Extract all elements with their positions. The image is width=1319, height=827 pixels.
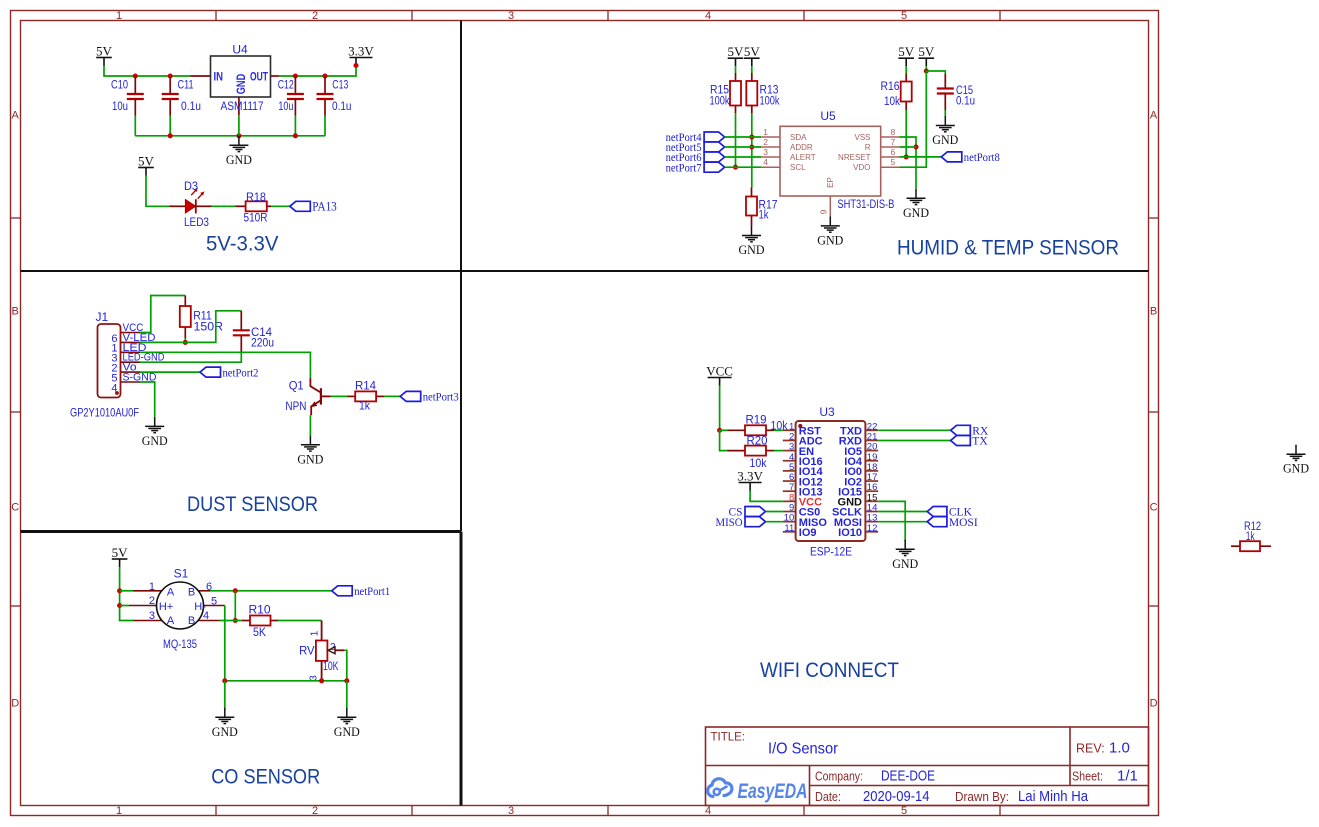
wire wiper to ground rail	[344, 650, 346, 681]
svg-text:220u: 220u	[251, 336, 274, 350]
wire netPort4 to SDA	[725, 136, 761, 138]
svg-text:10K: 10K	[323, 659, 339, 673]
capacitor C10	[111, 77, 144, 116]
svg-text:C: C	[11, 502, 19, 514]
transistor Q1 NPN	[285, 378, 330, 415]
power flag 5V (LED branch)	[138, 153, 155, 175]
svg-text:8: 8	[891, 127, 896, 137]
svg-text:SHT31-DIS-B: SHT31-DIS-B	[837, 197, 894, 211]
power flag 5V (VDO)	[918, 44, 935, 66]
svg-text:netPort7: netPort7	[666, 162, 702, 174]
wire pin4 to R10	[220, 620, 243, 622]
junction dot SCL	[733, 165, 738, 170]
junction dot pin4	[233, 618, 238, 623]
net port RX	[951, 425, 989, 437]
svg-text:1: 1	[309, 630, 320, 636]
wire R16 to NRESET	[905, 110, 907, 157]
net port CLK	[927, 507, 972, 519]
svg-text:GND: GND	[1283, 461, 1309, 476]
wire Q1 base to R14	[331, 395, 347, 397]
wire netPort6 to ALERT	[725, 156, 761, 158]
wire pin1 branch	[120, 590, 133, 592]
svg-text:10u: 10u	[112, 99, 128, 113]
svg-text:B: B	[1150, 306, 1157, 318]
svg-text:5K: 5K	[253, 625, 266, 639]
svg-text:1.0: 1.0	[1109, 740, 1130, 757]
wire VCC down	[719, 386, 721, 431]
wire MISO to MISO pin	[766, 521, 783, 523]
capacitor C15 0.1u	[937, 74, 975, 110]
svg-text:5V: 5V	[96, 43, 113, 58]
svg-text:netPort2: netPort2	[223, 367, 259, 379]
svg-text:Lai Minh Ha: Lai Minh Ha	[1018, 788, 1089, 805]
power flag 5V (regulator input)	[96, 43, 113, 65]
svg-text:3.3V: 3.3V	[348, 43, 374, 58]
svg-text:6: 6	[891, 147, 896, 157]
resistor R18	[235, 190, 271, 225]
svg-text:2: 2	[149, 595, 155, 607]
svg-text:3: 3	[308, 675, 319, 681]
svg-text:MISO: MISO	[716, 517, 743, 529]
svg-text:C13: C13	[332, 78, 348, 92]
svg-text:5: 5	[901, 805, 907, 817]
wire VCC to R11	[140, 296, 185, 333]
svg-text:Q1: Q1	[289, 379, 304, 393]
wire MOSI pin to MOSI	[878, 521, 927, 523]
wire R20 to EN	[774, 450, 783, 452]
wire ground rail	[135, 116, 325, 136]
resistor R20 10k	[728, 434, 775, 471]
resistor R19 10k	[728, 413, 788, 436]
svg-text:GND: GND	[212, 724, 238, 739]
wire VDO to 5V	[900, 71, 927, 167]
svg-text:netPort1: netPort1	[354, 586, 390, 598]
wire 5V to C15	[926, 71, 945, 74]
svg-text:IO9: IO9	[799, 527, 817, 539]
svg-text:5V: 5V	[744, 44, 761, 59]
wire 3.3V to VCC pin	[750, 491, 783, 502]
svg-text:ADDR: ADDR	[790, 143, 813, 152]
svg-text:ALERT: ALERT	[790, 153, 816, 162]
resistor R13 100k	[746, 73, 779, 113]
resistor R12 1k (floating)	[1231, 519, 1271, 551]
svg-text:D: D	[1150, 698, 1158, 710]
svg-text:2: 2	[763, 137, 768, 147]
svg-text:R19: R19	[746, 413, 767, 427]
wire TXD to RX	[878, 429, 950, 431]
wire C10 to ground rail	[134, 116, 136, 136]
resistor R11 150R	[180, 296, 224, 339]
svg-text:2020-09-14: 2020-09-14	[863, 788, 930, 805]
svg-text:TITLE:: TITLE:	[711, 732, 746, 744]
svg-text:REV:: REV:	[1076, 742, 1105, 756]
svg-text:0.1u: 0.1u	[332, 99, 352, 113]
wire pin6 to netPort1	[210, 590, 332, 592]
svg-text:H+: H+	[159, 601, 173, 613]
svg-text:ASM1117: ASM1117	[221, 99, 264, 113]
wire netPort7 to SCL	[725, 166, 761, 168]
svg-text:C10: C10	[111, 78, 128, 92]
ground GND (CO right)	[334, 708, 360, 739]
svg-text:GND: GND	[297, 451, 323, 466]
wire VCC to R19	[720, 429, 728, 431]
svg-text:1k: 1k	[1246, 531, 1255, 543]
svg-text:R20: R20	[747, 434, 768, 448]
ground GND (U5 pad)	[817, 216, 843, 247]
svg-text:5V: 5V	[138, 153, 155, 168]
wire 5V to R13	[751, 66, 753, 73]
ground GND (VSS/R)	[903, 189, 929, 220]
wire R19 to RST	[774, 429, 783, 431]
svg-text:SDA: SDA	[790, 133, 807, 142]
transistor S1 MQ-135 gas sensor	[129, 567, 225, 652]
op-amp U3 ESP-12E module	[783, 405, 878, 559]
junction dots CO rail	[222, 678, 227, 683]
svg-text:GND: GND	[817, 232, 843, 247]
svg-text:B: B	[12, 306, 19, 318]
junction dots SDA ADDR	[749, 134, 754, 139]
wire U4 GND to rail	[238, 115, 240, 136]
svg-text:1: 1	[763, 127, 768, 137]
svg-text:A: A	[1150, 110, 1158, 122]
svg-text:GND: GND	[892, 556, 918, 571]
svg-text:HUMID & TEMP SENSOR: HUMID & TEMP SENSOR	[897, 237, 1119, 260]
wire R11 to V-LED	[184, 338, 186, 342]
junction dots ground rail	[168, 133, 173, 138]
svg-text:EP: EP	[826, 177, 835, 188]
net port netPort7	[666, 162, 725, 174]
svg-text:5V: 5V	[898, 44, 915, 59]
svg-text:MOSI: MOSI	[949, 517, 978, 529]
ground GND (C15)	[932, 116, 958, 147]
wire V-LED to C14	[140, 311, 241, 343]
net port netPort3	[400, 391, 459, 403]
svg-text:Sheet:: Sheet:	[1072, 769, 1103, 783]
title block	[706, 727, 1149, 806]
svg-text:VDO: VDO	[853, 163, 870, 172]
power flag 5V (R15)	[728, 44, 745, 66]
svg-text:GND: GND	[739, 242, 765, 257]
resistor R10 5K	[242, 603, 278, 640]
svg-text:7: 7	[891, 137, 896, 147]
svg-text:1/1: 1/1	[1117, 767, 1138, 784]
svg-text:3: 3	[508, 10, 514, 22]
op-amp U5 SHT31-DIS-B	[761, 109, 900, 216]
wire 5V to IN rail	[104, 66, 190, 77]
svg-text:A: A	[12, 110, 20, 122]
capacitor C12	[278, 77, 304, 116]
net port MOSI	[927, 517, 978, 529]
svg-text:150R: 150R	[194, 320, 224, 334]
wire OUT to 3.3V	[279, 65, 356, 77]
connector J1 GP2Y1010AU0F	[70, 310, 165, 420]
svg-text:RV: RV	[299, 644, 315, 658]
wire H- to ground rail	[224, 606, 226, 681]
wire 5V to R16	[905, 66, 907, 73]
wire rail to right ground	[346, 681, 348, 709]
svg-text:5V-3.3V: 5V-3.3V	[206, 233, 279, 256]
svg-text:GND: GND	[903, 205, 929, 220]
svg-text:D: D	[11, 698, 19, 710]
svg-text:ESP-12E: ESP-12E	[810, 545, 852, 559]
net port netPort1	[332, 586, 391, 598]
svg-text:DEE-DOE: DEE-DOE	[881, 767, 935, 784]
svg-text:Date:: Date:	[815, 790, 841, 804]
svg-text:9: 9	[819, 209, 829, 214]
svg-text:GND: GND	[226, 152, 252, 167]
wire LED to Q1 collector	[140, 352, 310, 378]
wire C11 to ground rail	[169, 116, 171, 136]
net port CS	[729, 507, 766, 519]
svg-text:R10: R10	[249, 603, 271, 617]
wire rail to left ground	[224, 681, 226, 709]
svg-text:U4: U4	[232, 43, 248, 57]
power flag 3.3V (ESP)	[737, 468, 763, 490]
net port PA13	[290, 199, 337, 214]
svg-text:100k: 100k	[760, 96, 780, 108]
svg-text:LED3: LED3	[184, 215, 209, 229]
svg-text:5V: 5V	[112, 545, 129, 560]
svg-text:B: B	[188, 587, 195, 599]
svg-text:A: A	[167, 587, 175, 599]
svg-text:I/O Sensor: I/O Sensor	[768, 741, 839, 758]
wire S-GND to ground	[140, 382, 155, 417]
net port netPort2	[200, 367, 259, 379]
svg-text:IO10: IO10	[838, 527, 862, 539]
junction dots on input rail	[133, 73, 138, 78]
svg-text:0.1u: 0.1u	[181, 99, 201, 113]
ground GND (Q1)	[297, 435, 323, 466]
wire 5V to R15	[735, 66, 737, 73]
svg-text:4: 4	[705, 10, 711, 22]
wire VSS to R net	[900, 137, 917, 189]
svg-text:J1: J1	[96, 310, 109, 324]
node 3.3V junction dot	[353, 63, 358, 68]
svg-text:C12: C12	[278, 78, 294, 92]
wire R18 to PA13	[271, 205, 290, 207]
wire R pin stub link	[900, 146, 917, 148]
svg-text:OUT: OUT	[250, 72, 268, 84]
svg-text:2: 2	[330, 642, 336, 653]
svg-text:GND: GND	[142, 433, 168, 448]
svg-text:C11: C11	[178, 78, 194, 92]
svg-text:2: 2	[312, 805, 318, 817]
svg-text:CO SENSOR: CO SENSOR	[211, 766, 320, 789]
svg-text:1: 1	[116, 805, 122, 817]
svg-text:GND: GND	[334, 724, 360, 739]
LED D3	[170, 179, 212, 229]
capacitor C11	[162, 77, 201, 116]
wire LED to R18	[212, 205, 236, 207]
ground GND (ESP)	[892, 540, 918, 571]
svg-text:4: 4	[705, 805, 711, 817]
svg-text:H-: H-	[194, 601, 206, 613]
svg-text:3: 3	[508, 805, 514, 817]
svg-text:GND: GND	[932, 132, 958, 147]
svg-text:10u: 10u	[278, 99, 293, 113]
svg-text:3: 3	[763, 147, 768, 157]
power flag 5V (R13)	[744, 44, 761, 66]
junction dot R pin	[913, 144, 918, 149]
svg-text:TX: TX	[972, 436, 988, 448]
svg-text:C: C	[1150, 502, 1158, 514]
ground GND (J1)	[142, 417, 168, 448]
junction dot NRESET	[904, 154, 909, 159]
resistor R15 100k	[710, 73, 742, 113]
svg-text:5V: 5V	[728, 44, 745, 59]
svg-text:DUST SENSOR: DUST SENSOR	[187, 493, 318, 516]
svg-text:5: 5	[901, 10, 907, 22]
op-amp U4 regulator ASM1117	[190, 43, 279, 116]
svg-text:4: 4	[763, 157, 768, 167]
resistor R16 10k	[881, 74, 912, 111]
wire pin6 to pin4 link	[234, 591, 236, 621]
svg-text:1: 1	[116, 10, 122, 22]
svg-text:5V: 5V	[918, 44, 935, 59]
svg-text:A: A	[167, 615, 175, 627]
wire R15 column to SCL	[735, 113, 737, 167]
svg-text:WIFI CONNECT: WIFI CONNECT	[760, 659, 899, 682]
ground GND (R17)	[739, 226, 765, 257]
svg-text:3: 3	[149, 610, 155, 622]
svg-text:D3: D3	[184, 179, 198, 193]
potentiometer RV 10K	[299, 621, 344, 681]
power flag 3.3V (regulator output)	[348, 43, 374, 65]
capacitor C13	[317, 77, 352, 116]
svg-text:1: 1	[149, 581, 155, 593]
wire Vo to netPort2	[140, 371, 200, 373]
svg-text:EasyEDA: EasyEDA	[738, 780, 808, 803]
svg-text:PA13: PA13	[312, 199, 337, 214]
capacitor C14 220u	[233, 311, 274, 352]
junction dot V-LED	[183, 340, 188, 345]
svg-text:R18: R18	[246, 190, 266, 204]
svg-text:SCL: SCL	[790, 163, 806, 172]
svg-text:1k: 1k	[759, 210, 769, 222]
junction dots on output rail	[293, 73, 298, 78]
ground GND (regulator)	[226, 136, 252, 167]
svg-text:11: 11	[784, 523, 794, 534]
svg-text:netPort3: netPort3	[423, 392, 459, 404]
junction dot pin1	[117, 588, 122, 593]
svg-text:R14: R14	[355, 378, 376, 392]
wire 5V to LED anode	[146, 176, 170, 207]
svg-text:NRESET: NRESET	[838, 153, 871, 162]
svg-text:MQ-135: MQ-135	[163, 637, 197, 651]
svg-text:R: R	[865, 143, 871, 152]
svg-text:R16: R16	[881, 81, 900, 93]
svg-text:5: 5	[211, 596, 217, 608]
wire ground rail CO	[225, 680, 347, 682]
svg-text:U5: U5	[820, 109, 836, 123]
svg-text:5: 5	[891, 157, 896, 167]
power flag 5V (R16)	[898, 44, 915, 66]
svg-text:VSS: VSS	[854, 133, 870, 142]
svg-text:10k: 10k	[884, 96, 900, 108]
wire R13 column to R17	[751, 113, 753, 188]
resistor R17 1k	[746, 188, 778, 227]
wire 5V down to pins	[120, 567, 133, 621]
net port TX	[951, 436, 989, 448]
wire CS to CS0	[766, 511, 783, 513]
junction dot pin6	[233, 588, 238, 593]
svg-text:IN: IN	[214, 72, 224, 84]
svg-text:S1: S1	[174, 567, 189, 581]
wire 5V flag stem	[925, 66, 927, 71]
wire netPort5 to ADDR	[725, 146, 761, 148]
wire LED-GND to C14	[140, 352, 241, 362]
junction dot VCC/R19	[717, 428, 722, 433]
ground GND (CO left)	[212, 708, 238, 739]
wire SCLK to CLK	[878, 511, 927, 513]
power flag 5V (CO sensor)	[112, 545, 129, 567]
wire GND pin to ground	[878, 501, 905, 541]
svg-text:U3: U3	[819, 405, 835, 419]
svg-text:12: 12	[867, 523, 878, 534]
wire R10 to RV	[278, 620, 322, 622]
junction dot pin2	[117, 603, 122, 608]
wire VCC to R20	[720, 430, 728, 450]
junction dot 5V/VDO/C15	[924, 68, 929, 73]
wire R14 to netPort3	[384, 395, 400, 397]
net port netPort6	[666, 152, 725, 164]
svg-text:2: 2	[312, 10, 318, 22]
wire C15 to ground	[944, 110, 946, 116]
svg-text:3.3V: 3.3V	[737, 468, 763, 483]
wire NRESET to netPort8	[900, 156, 942, 158]
net port MISO	[716, 517, 766, 529]
svg-text:Company:: Company:	[815, 769, 863, 783]
svg-text:100k: 100k	[710, 96, 730, 108]
svg-text:1k: 1k	[359, 399, 371, 413]
wire RXD to TX	[878, 440, 950, 442]
net port netPort4	[666, 132, 725, 144]
EasyEDA logo	[708, 779, 808, 803]
wire Q1 emitter to ground	[309, 415, 311, 435]
svg-text:B: B	[188, 615, 195, 627]
svg-text:0.1u: 0.1u	[956, 96, 975, 108]
power flag VCC	[706, 363, 733, 385]
svg-text:NPN: NPN	[285, 399, 306, 413]
svg-text:netPort8: netPort8	[964, 152, 1000, 164]
svg-text:Drawn By:: Drawn By:	[955, 790, 1009, 804]
net port netPort5	[666, 142, 725, 154]
svg-text:GP2Y1010AU0F: GP2Y1010AU0F	[70, 406, 139, 420]
svg-text:GND: GND	[236, 74, 248, 95]
ground GND (floating)	[1283, 445, 1309, 476]
wire pin2 branch	[120, 605, 129, 607]
resistor R14 1k	[347, 378, 384, 412]
svg-text:VCC: VCC	[706, 363, 733, 378]
wire C12 to ground rail	[294, 116, 296, 136]
svg-text:510R: 510R	[244, 211, 268, 225]
net port netPort8	[941, 152, 1000, 164]
